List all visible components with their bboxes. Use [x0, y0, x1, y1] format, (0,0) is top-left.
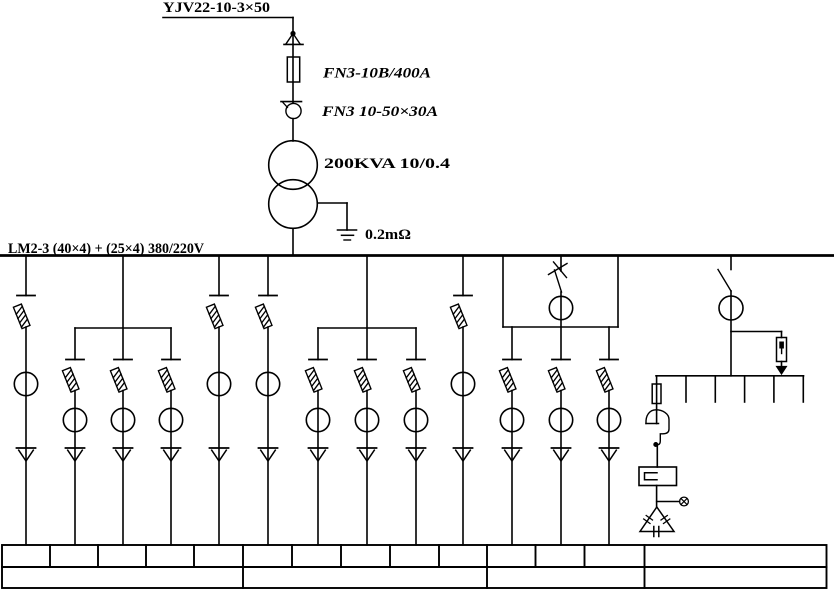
- svg-text:FN3 10-50×30A: FN3 10-50×30A: [321, 104, 438, 120]
- svg-text:FN3-10B/400A: FN3-10B/400A: [322, 66, 431, 82]
- svg-text:LM2-3 (40×4) + (25×4) 380/220: LM2-3 (40×4) + (25×4) 380/220V: [8, 241, 204, 257]
- svg-text:200KVA 10/0.4: 200KVA 10/0.4: [324, 156, 451, 172]
- svg-text:YJV22-10-3×50: YJV22-10-3×50: [163, 0, 270, 16]
- svg-text:0.2mΩ: 0.2mΩ: [365, 227, 411, 243]
